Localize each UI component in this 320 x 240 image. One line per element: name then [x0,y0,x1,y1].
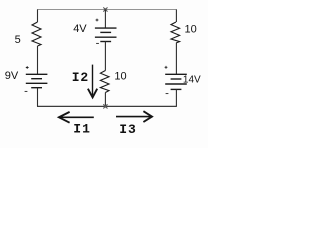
svg-text:9V: 9V [5,70,19,82]
svg-text:10: 10 [114,70,126,82]
node bottom junction [104,105,106,107]
svg-text:14V: 14V [183,74,201,85]
battery V1 plus mark [26,66,29,69]
wire bottom horizontal [37,105,177,107]
battery V2 4V [95,28,117,41]
battery V3 minus mark [166,93,169,95]
svg-text:10: 10 [185,23,197,35]
wire right branch middle [175,43,177,74]
battery V2 minus mark [96,42,99,44]
svg-text:I3: I3 [119,122,137,137]
wire right branch upper [175,10,177,23]
svg-text:I2: I2 [72,70,89,85]
battery V3 14V [165,74,187,89]
wire middle branch lower [104,93,106,107]
battery V2 plus mark [96,19,99,22]
svg-text:5: 5 [15,34,21,46]
wire left branch upper [37,10,39,23]
current arrow I2 [92,65,94,96]
wire left branch middle [37,46,39,74]
resistor R3 value 10 [171,22,180,43]
wire left branch lower [37,88,39,107]
resistor R2 value 10 [100,71,109,93]
svg-text:I1: I1 [73,122,91,137]
current arrow I1 [59,116,94,118]
battery V1 9V [26,74,48,87]
wire right branch lower [175,89,177,106]
resistor R1 value 5 [32,22,41,46]
node top junction [104,8,106,10]
wire middle branch upper [104,10,106,29]
current arrow I3 [116,116,152,118]
battery V3 plus mark [165,66,168,69]
wire middle branch middle [104,42,106,71]
wire top horizontal [37,9,177,11]
svg-text:4V: 4V [73,23,87,35]
battery V1 minus mark [25,90,28,92]
